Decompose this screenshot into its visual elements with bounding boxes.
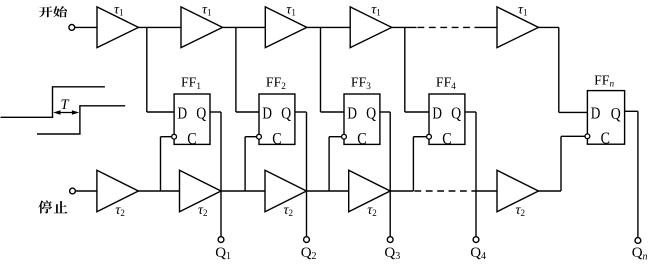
wire B3 output to B4 input	[307, 190, 349, 192]
svg-text:Q: Q	[196, 103, 206, 122]
clock inversion bubble of FFn	[585, 134, 590, 139]
wire FF4 Q output down to terminal Q4	[465, 112, 476, 237]
output terminal Qn	[635, 238, 641, 244]
delay buffer B1 (tau2)	[97, 170, 138, 211]
wire tap from tau1 chain to FF1 D input	[147, 27, 174, 112]
wire tap from tau1 chain to FFn D input	[559, 27, 588, 112]
wire tap from tau2 chain to FF2 C input	[245, 137, 257, 191]
flip-flop FF1	[174, 94, 210, 144]
delay buffer A5 (tau1)	[497, 7, 539, 48]
clock inversion bubble of FF2	[257, 134, 262, 139]
delay buffer A4 (tau1)	[350, 7, 392, 48]
wire FFn Q output down to terminal Qn	[625, 111, 638, 237]
stop input terminal	[70, 188, 76, 194]
output terminal Q2	[304, 237, 310, 243]
svg-text:Q: Q	[281, 103, 291, 122]
wire FF1 Q output down to terminal Q1	[210, 112, 221, 237]
svg-text:C: C	[272, 129, 281, 148]
svg-text:Q: Q	[451, 103, 461, 122]
svg-text:D: D	[347, 103, 357, 122]
stop signal waveform (rising edge)	[37, 106, 125, 134]
svg-text:D: D	[178, 103, 188, 122]
wire FF3 Q output down to terminal Q3	[380, 112, 390, 237]
delay buffer B3 (tau2)	[265, 170, 307, 211]
wire FF2 Q output down to terminal Q2	[295, 112, 307, 237]
wire tap from tau1 chain to FF2 D input	[236, 27, 259, 112]
wire A4 output to dashed break	[392, 26, 417, 28]
start input terminal	[69, 25, 75, 31]
output terminal Q4	[473, 237, 479, 243]
wire tap from tau2 chain to FF4 C input	[413, 137, 426, 191]
wire tap from tau2 chain to FF3 C input	[329, 137, 342, 191]
wire B1 output to B2 input	[138, 190, 179, 192]
clock inversion bubble of FF4	[427, 134, 432, 139]
wire B4 output to dashed break	[390, 190, 413, 192]
wire tap from tau1 chain to FF3 D input	[321, 27, 345, 112]
svg-text:Q: Q	[366, 103, 376, 122]
clock inversion bubble of FF1	[172, 134, 177, 139]
wire B2 output to B3 input	[221, 190, 265, 192]
wire dashed continuation of tau2 chain	[414, 190, 475, 192]
wire A5 output to FFn D drop	[539, 26, 559, 28]
wire stop terminal to buffer B1	[75, 190, 97, 192]
wire start terminal to buffer A1	[75, 26, 97, 28]
delay buffer B5 (tau2)	[497, 170, 539, 211]
delay buffer A2 (tau1)	[181, 7, 223, 48]
wire tap from tau1 chain to FF4 D input	[405, 27, 429, 112]
wire tap from tau2 chain to FF1 C input	[161, 137, 172, 191]
svg-text:C: C	[601, 128, 610, 147]
svg-text:C: C	[442, 129, 451, 148]
output terminal Q1	[218, 237, 224, 243]
svg-text:D: D	[591, 104, 601, 123]
delay buffer B2 (tau2)	[180, 170, 222, 211]
flip-flop FF2	[259, 94, 295, 144]
svg-text:D: D	[432, 103, 442, 122]
wire dashed continuation of tau1 chain	[418, 26, 475, 28]
output terminal Q3	[387, 237, 393, 243]
flip-flop FFn	[587, 91, 624, 145]
dimension arrow T between edges	[53, 110, 79, 115]
input label 开始 (start)	[39, 6, 67, 17]
flip-flop FF3	[344, 94, 380, 144]
wire A3 output to A4 input	[307, 26, 350, 28]
svg-text:T: T	[61, 97, 70, 113]
start signal waveform (rising edge)	[1, 87, 105, 118]
wire dashed break to buffer B5 input	[475, 190, 497, 192]
delay buffer A3 (tau1)	[265, 7, 307, 48]
wire A1 output to A2 input	[139, 26, 182, 28]
wire A2 output to A3 input	[223, 26, 266, 28]
clock inversion bubble of FF3	[342, 134, 347, 139]
delay buffer A1 (tau1)	[97, 7, 139, 48]
svg-text:C: C	[187, 129, 196, 148]
svg-text:D: D	[262, 103, 272, 122]
wire tap from tau2 chain to FFn C input	[561, 136, 585, 191]
wire dashed break to buffer A5 input	[475, 26, 498, 28]
delay buffer B4 (tau2)	[349, 170, 391, 211]
svg-text:Q: Q	[611, 104, 621, 123]
input label 停止 (stop)	[38, 200, 67, 213]
wire B5 output to FFn C tap	[539, 190, 562, 192]
svg-text:C: C	[357, 129, 366, 148]
flip-flop FF4	[429, 94, 465, 144]
